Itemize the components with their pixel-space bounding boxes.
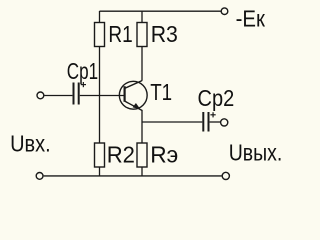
terminal: -Ek supply: [221, 8, 228, 15]
svg-text:Cp2: Cp2: [198, 85, 235, 111]
svg-text:R3: R3: [151, 21, 178, 47]
capacitor Cp1: [74, 83, 79, 105]
wire: Cp2 to output terminal: [210, 121, 220, 123]
terminal: bottom left common: [36, 173, 43, 180]
capacitor Cp2: [203, 112, 208, 132]
wire: R2 bottom stub: [99, 167, 101, 176]
wire: base node down to R2: [99, 96, 101, 144]
terminal: output: [221, 119, 228, 126]
wire: collector lead from R3: [141, 47, 143, 81]
svg-text:Uвх.: Uвх.: [10, 131, 51, 157]
wire: R1 top stub: [99, 11, 101, 23]
transistor T1: [119, 81, 147, 111]
terminal: bottom right common: [222, 172, 229, 179]
wire: bottom rail: [44, 175, 222, 177]
polarity + of Cp2: [210, 112, 215, 117]
wire: emitter down to Rэ: [141, 110, 143, 143]
terminal: input: [37, 92, 44, 99]
svg-text:T1: T1: [150, 79, 172, 105]
svg-text:R1: R1: [108, 21, 132, 47]
svg-text:Cp1: Cp1: [67, 58, 98, 84]
wire: R1 bottom to base node: [99, 47, 101, 96]
polarity + of Cp1: [81, 82, 86, 87]
wire: emitter node to Cp2: [142, 121, 202, 123]
svg-text:-Eк: -Eк: [236, 6, 266, 32]
resistor R2: [95, 143, 105, 167]
svg-text:Rэ: Rэ: [150, 141, 178, 167]
wire: Rэ bottom stub: [141, 167, 143, 176]
wire: input terminal to Cp1: [44, 95, 72, 97]
wire: Cp1 to base: [80, 95, 124, 97]
wire: top supply rail: [100, 10, 222, 12]
svg-text:R2: R2: [107, 141, 135, 167]
resistor R1: [95, 23, 105, 47]
resistor R3: [137, 23, 147, 47]
wire: R3 top stub: [141, 11, 143, 23]
resistor Rэ: [137, 143, 147, 167]
svg-text:Uвых.: Uвых.: [229, 139, 283, 165]
